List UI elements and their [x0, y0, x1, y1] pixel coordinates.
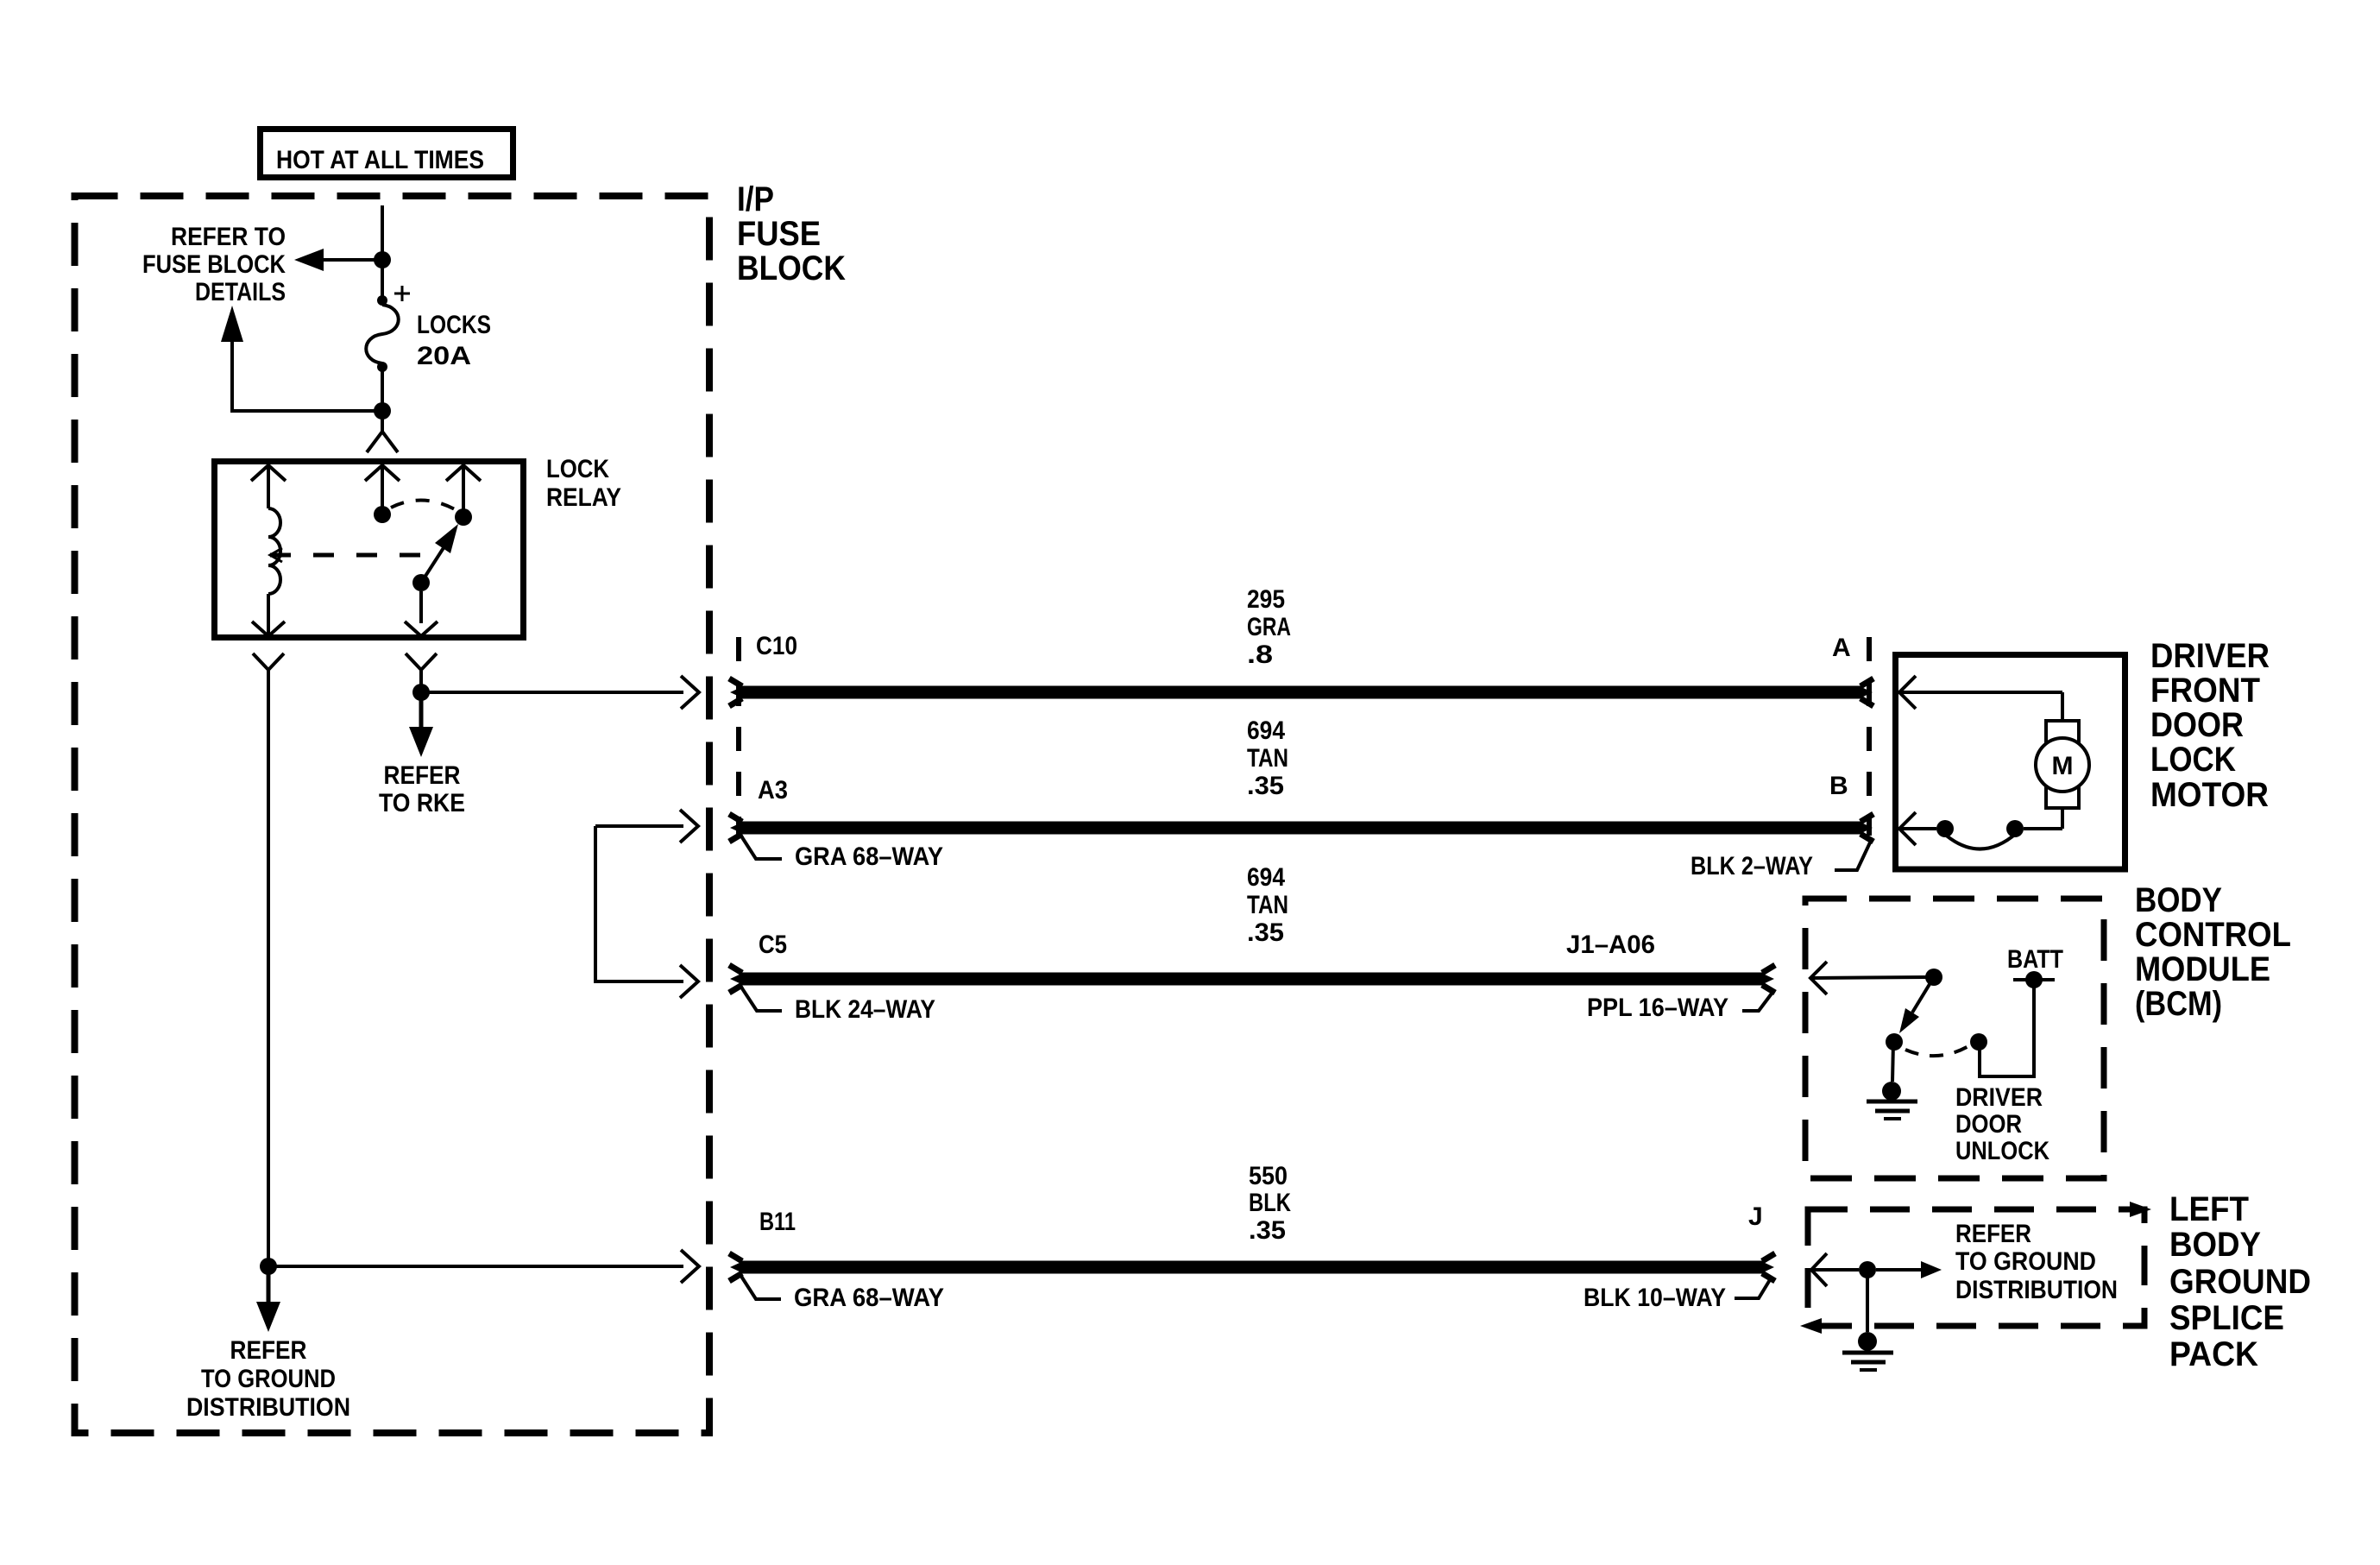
- svg-text:DISTRIBUTION: DISTRIBUTION: [186, 1393, 350, 1422]
- BCM right contact and BATT feed: [1970, 971, 2055, 1076]
- relay dashed contact arc: [391, 500, 455, 509]
- svg-text:BLK 24–WAY: BLK 24–WAY: [795, 995, 935, 1024]
- svg-text:.8: .8: [1247, 641, 1273, 669]
- svg-text:MODULE: MODULE: [2135, 950, 2270, 988]
- svg-text:BODY: BODY: [2135, 881, 2222, 919]
- LOCK RELAY label: [546, 455, 621, 512]
- svg-text:BATT: BATT: [2007, 945, 2063, 974]
- BLK 10-WAY leader + label: [1584, 1278, 1771, 1312]
- svg-text:BLK 10–WAY: BLK 10–WAY: [1584, 1284, 1726, 1312]
- wire spec 550 BLK .35: [1249, 1162, 1291, 1245]
- svg-text:DISTRIBUTION: DISTRIBUTION: [1955, 1276, 2118, 1304]
- svg-text:550: 550: [1249, 1162, 1288, 1190]
- junction dot to C10 feed: [412, 684, 430, 701]
- splice pack border arrowheads: [2130, 1202, 2151, 1217]
- relay switch output pin: [405, 591, 438, 636]
- relay middle pin: [365, 465, 400, 523]
- BCM linkage dashed arc: [1905, 1046, 1968, 1056]
- GRA 68-WAY leader + label: [740, 835, 943, 871]
- svg-text:694: 694: [1247, 716, 1285, 745]
- BCM ground: [1867, 1042, 1917, 1119]
- wire from border to fuse: [381, 205, 384, 260]
- motor M symbol: [2024, 721, 2089, 829]
- I/P fuse block dashed boundary: [75, 196, 710, 1433]
- svg-text:A3: A3: [758, 776, 788, 805]
- svg-text:RELAY: RELAY: [546, 483, 621, 512]
- relay right pin (common): [446, 465, 481, 526]
- wire to C10 with chevron: [421, 676, 699, 709]
- svg-text:M: M: [2052, 752, 2074, 780]
- junction dot at fuse feed: [374, 251, 391, 268]
- splice pack ground: [1842, 1270, 1893, 1370]
- BCM switch common dot: [1925, 969, 1942, 986]
- svg-text:BLK: BLK: [1249, 1189, 1291, 1217]
- svg-text:DRIVER: DRIVER: [2150, 637, 2270, 675]
- svg-text:.35: .35: [1247, 772, 1284, 800]
- wire to B11 with chevron: [268, 1250, 699, 1283]
- svg-text:GRA 68–WAY: GRA 68–WAY: [795, 842, 943, 871]
- branch up-arrow to refer text: [221, 306, 382, 411]
- wire C5 to J1-A06 (694 TAN .35): [729, 965, 1775, 993]
- svg-text:.35: .35: [1249, 1216, 1286, 1245]
- down arrow to ground distribution: [256, 1266, 280, 1332]
- fuse output connector: [367, 411, 398, 452]
- svg-text:DOOR: DOOR: [1955, 1110, 2022, 1139]
- ground wire down left side: [267, 670, 270, 1266]
- relay coil pin: [251, 465, 286, 508]
- wire B11 to J (550 BLK .35): [729, 1253, 1775, 1281]
- svg-text:DOOR: DOOR: [2150, 706, 2244, 744]
- LOCKS 20A text: [417, 311, 491, 370]
- svg-text:GROUND: GROUND: [2169, 1263, 2311, 1301]
- connector dashed line GRA 68-WAY (left): [736, 637, 741, 836]
- splice pack entry arrow: [1811, 1253, 1859, 1286]
- svg-text:SPLICE: SPLICE: [2169, 1299, 2284, 1337]
- lock relay box: [215, 462, 524, 638]
- relay coil: [268, 508, 280, 594]
- svg-text:CONTROL: CONTROL: [2135, 916, 2291, 954]
- svg-text:DETAILS: DETAILS: [195, 278, 286, 306]
- BCM switch arm: [1899, 977, 1934, 1033]
- svg-text:I/P: I/P: [737, 180, 774, 218]
- relay switch arm: [412, 524, 458, 591]
- svg-text:GRA 68–WAY: GRA 68–WAY: [794, 1284, 944, 1312]
- svg-text:GRA: GRA: [1247, 613, 1291, 641]
- svg-text:B11: B11: [759, 1208, 796, 1236]
- svg-text:FRONT: FRONT: [2150, 672, 2260, 710]
- svg-text:J1–A06: J1–A06: [1566, 931, 1655, 959]
- BLK 2-WAY leader + label: [1691, 841, 1871, 880]
- svg-text:REFER: REFER: [230, 1336, 307, 1365]
- svg-text:UNLOCK: UNLOCK: [1955, 1137, 2049, 1165]
- I/P FUSE BLOCK label: [737, 180, 846, 287]
- motor pin A arrow: [1899, 676, 2062, 721]
- wire spec 694 TAN .35 (second): [1247, 863, 1288, 947]
- svg-text:TO RKE: TO RKE: [379, 789, 465, 817]
- LEFT BODY GROUND SPLICE PACK label: [2169, 1190, 2311, 1373]
- svg-text:TO GROUND: TO GROUND: [201, 1365, 336, 1393]
- DRIVER FRONT DOOR LOCK MOTOR label: [2150, 637, 2270, 814]
- BCM switch lower contact: [1886, 1033, 1903, 1051]
- BODY CONTROL MODULE (BCM) label: [2135, 881, 2291, 1023]
- svg-text:PACK: PACK: [2169, 1335, 2258, 1373]
- wire A3 to B (694 TAN .35): [729, 814, 1873, 842]
- svg-text:B: B: [1829, 772, 1848, 800]
- svg-text:TAN: TAN: [1247, 744, 1288, 773]
- refer-to-fuse-block-details arrow: [294, 249, 382, 271]
- svg-text:BLOCK: BLOCK: [737, 249, 846, 287]
- HOT AT ALL TIMES box: [261, 129, 513, 178]
- svg-text:REFER: REFER: [1955, 1220, 2031, 1248]
- svg-text:REFER: REFER: [384, 761, 461, 790]
- svg-text:LOCK: LOCK: [2150, 741, 2236, 779]
- svg-text:A: A: [1832, 634, 1851, 662]
- svg-text:FUSE BLOCK: FUSE BLOCK: [142, 250, 286, 279]
- body control module dashed boundary: [1805, 899, 2104, 1178]
- BCM entry arrow: [1810, 962, 1927, 994]
- svg-text:FUSE: FUSE: [737, 215, 821, 253]
- svg-text:LOCK: LOCK: [546, 455, 609, 483]
- svg-text:REFER TO: REFER TO: [171, 223, 286, 251]
- REFER TO RKE text: [379, 761, 465, 817]
- refer-to-ground arrow: [1876, 1261, 1942, 1278]
- PPL 16-WAY leader + label: [1587, 990, 1774, 1022]
- splice junction dot: [1859, 1261, 1876, 1278]
- svg-text:BLK 2–WAY: BLK 2–WAY: [1691, 852, 1813, 880]
- wire C10 to A (295 GRA .8): [729, 678, 1873, 706]
- svg-text:C5: C5: [759, 931, 787, 959]
- GRA 68-WAY leader + label (B11): [740, 1275, 944, 1312]
- BLK 24-WAY leader + label: [740, 986, 935, 1024]
- wire spec 295 GRA .8: [1247, 585, 1291, 669]
- relay coil bottom pin: [252, 594, 285, 636]
- svg-text:HOT AT ALL TIMES: HOT AT ALL TIMES: [276, 146, 484, 174]
- driver front door lock motor box: [1896, 655, 2125, 870]
- svg-text:295: 295: [1247, 585, 1285, 614]
- svg-text:(BCM): (BCM): [2135, 985, 2222, 1023]
- down arrow to RKE: [409, 692, 433, 757]
- motor reversing contacts: [1936, 820, 2024, 849]
- relay output connector: [406, 653, 437, 692]
- svg-text:BODY: BODY: [2169, 1226, 2261, 1264]
- relay coil ground connector: [253, 653, 284, 670]
- svg-text:C10: C10: [756, 632, 797, 660]
- wire spec 694 TAN .35: [1247, 716, 1288, 800]
- svg-text:20A: 20A: [417, 342, 471, 370]
- svg-text:.35: .35: [1247, 918, 1284, 947]
- REFER TO FUSE BLOCK DETAILS text: [142, 223, 286, 306]
- junction dot ground branch: [260, 1258, 277, 1275]
- motor pin B arrow: [1899, 812, 1936, 845]
- svg-text:TO GROUND: TO GROUND: [1955, 1247, 2096, 1276]
- REFER TO GROUND DISTRIBUTION label (splice): [1955, 1220, 2118, 1304]
- svg-text:LEFT: LEFT: [2169, 1190, 2249, 1228]
- REFER TO GROUND DISTRIBUTION text: [186, 1336, 350, 1422]
- connector dashed line BLK 2-WAY (right): [1867, 637, 1872, 836]
- A3 pin entry arrow from bracket: [595, 810, 698, 998]
- svg-text:694: 694: [1247, 863, 1285, 892]
- left body ground splice pack dashed boundary: [1808, 1209, 2144, 1326]
- svg-text:J: J: [1748, 1202, 1763, 1231]
- svg-text:DRIVER: DRIVER: [1955, 1083, 2043, 1112]
- svg-text:MOTOR: MOTOR: [2150, 776, 2269, 814]
- junction dot below fuse: [374, 402, 391, 420]
- svg-text:PPL 16–WAY: PPL 16–WAY: [1587, 994, 1728, 1022]
- relay linkage dashed line: [270, 548, 439, 562]
- DRIVER DOOR UNLOCK label: [1955, 1083, 2049, 1165]
- svg-text:TAN: TAN: [1247, 891, 1288, 919]
- fuse LOCKS 20A: [366, 260, 410, 411]
- svg-text:LOCKS: LOCKS: [417, 311, 491, 339]
